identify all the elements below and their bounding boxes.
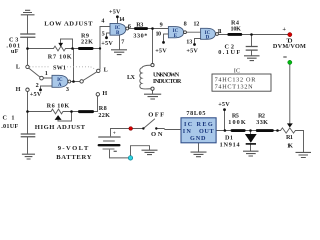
svg-text:+: + <box>282 26 286 33</box>
svg-text:9-VOLT: 9-VOLT <box>58 145 89 152</box>
svg-text:.01UF: .01UF <box>1 123 18 130</box>
svg-text:+5V: +5V <box>218 101 230 108</box>
svg-text:78L05: 78L05 <box>186 110 205 117</box>
svg-text:14: 14 <box>119 16 124 23</box>
svg-text:74HC132 OR: 74HC132 OR <box>215 77 257 84</box>
svg-text:OUT: OUT <box>199 128 214 135</box>
svg-text:+5V: +5V <box>186 47 198 54</box>
svg-text:4: 4 <box>101 18 104 25</box>
svg-text:R8: R8 <box>99 105 107 112</box>
svg-text:+5V: +5V <box>101 40 113 47</box>
svg-text:BATTERY: BATTERY <box>56 154 92 161</box>
svg-text:HIGH ADJUST: HIGH ADJUST <box>35 124 86 131</box>
svg-text:LX: LX <box>127 74 136 81</box>
svg-text:100K: 100K <box>228 119 246 126</box>
svg-text:H: H <box>102 90 107 97</box>
svg-text:12: 12 <box>193 21 199 28</box>
svg-text:GND: GND <box>190 135 206 142</box>
svg-text:L: L <box>104 66 108 73</box>
svg-text:10: 10 <box>156 31 162 38</box>
svg-text:D: D <box>206 36 210 41</box>
svg-text:1K: 1K <box>287 143 293 150</box>
svg-text:6: 6 <box>128 23 131 30</box>
svg-text:INDUCTOR: INDUCTOR <box>153 78 182 85</box>
svg-text:+: + <box>113 130 116 136</box>
svg-text:74HCT132N: 74HCT132N <box>215 84 254 91</box>
svg-text:LOW ADJUST: LOW ADJUST <box>44 21 93 28</box>
svg-text:DVM/VOM: DVM/VOM <box>273 43 306 50</box>
svg-text:7: 7 <box>121 39 124 46</box>
svg-text:+5V: +5V <box>30 91 42 98</box>
svg-text:8: 8 <box>184 21 187 28</box>
svg-text:A: A <box>58 83 62 88</box>
svg-text:ON: ON <box>151 131 163 138</box>
svg-text:1: 1 <box>45 70 48 77</box>
svg-text:+5V: +5V <box>155 47 167 54</box>
svg-text:H: H <box>16 86 21 93</box>
svg-text:R3: R3 <box>136 21 143 28</box>
svg-text:22K: 22K <box>98 112 110 119</box>
svg-text:10K: 10K <box>231 26 242 33</box>
svg-text:R7 10K: R7 10K <box>48 53 72 60</box>
svg-text:IC: IC <box>234 67 241 74</box>
svg-text:1N914: 1N914 <box>220 141 240 148</box>
svg-text:13: 13 <box>186 39 192 46</box>
svg-text:2: 2 <box>36 82 39 89</box>
svg-text:L: L <box>16 64 20 71</box>
svg-text:R1: R1 <box>286 134 293 141</box>
svg-text:+5V: +5V <box>109 9 121 16</box>
svg-text:uF: uF <box>11 48 19 55</box>
svg-text:22K: 22K <box>81 39 93 46</box>
svg-text:33K: 33K <box>256 119 268 126</box>
svg-text:11: 11 <box>217 28 222 35</box>
svg-text:IN: IN <box>183 128 192 135</box>
svg-text:5: 5 <box>102 31 105 38</box>
svg-text:SW1: SW1 <box>53 65 66 72</box>
svg-text:330*: 330* <box>133 33 147 40</box>
svg-text:R6 10K: R6 10K <box>47 103 70 110</box>
svg-text:OFF: OFF <box>148 111 164 118</box>
svg-text:9: 9 <box>160 21 163 28</box>
svg-text:3: 3 <box>66 86 69 93</box>
